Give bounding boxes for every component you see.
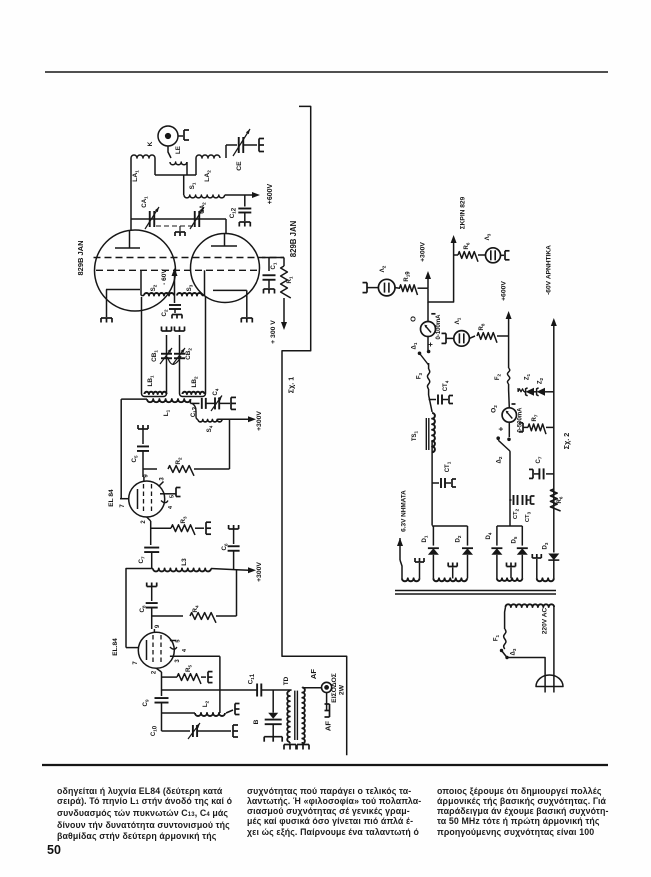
wire O2 to switch D2 [508,422,510,437]
ground below C1 [264,288,275,290]
resistor R5 [162,676,178,678]
svg-text:3: 3 [160,477,166,481]
svg-text:D5: D5 [512,536,519,543]
bridge bus D1 D2 [432,525,467,527]
diode D3 [553,546,555,553]
svg-text:C8: C8 [139,605,147,612]
pin 3 lead 2 [170,655,220,657]
svg-text:ΕΙΣΟΔΟΣ: ΕΙΣΟΔΟΣ [331,673,338,703]
svg-text:O: O [409,316,418,322]
cathode bar left [106,289,140,291]
svg-text:LB1: LB1 [147,375,155,387]
text column 3 [437,786,609,837]
wire pin3 rail down [219,656,221,690]
svg-text:CB2: CB2 [185,348,193,360]
svg-text:R7: R7 [532,414,539,421]
connector right of K [178,135,183,137]
svg-text:TS1: TS1 [412,430,419,441]
capacitor below B [265,719,282,721]
capacitor C8 [151,587,153,602]
ground center tap D1 D2 [452,568,454,579]
AF input jack [322,682,332,692]
wire LE to junction [186,162,188,175]
svg-text:CE: CE [236,161,243,171]
svg-text:F3: F3 [417,372,424,379]
EL84-1 grid dashed internals [143,484,145,514]
arrow +600V (psu) [508,319,510,336]
pin 2 lead [147,517,151,521]
wire C9 to L2 [162,712,196,714]
arrow -60V (psu) [551,318,557,326]
wire +300V to R4 rail [236,570,238,616]
transformer TD left coil [289,690,291,691]
wire cathode row [162,689,220,691]
svg-text:C10: C10 [151,725,159,736]
EL84-2 grid dashed internals [152,635,154,665]
text column 2 [247,786,412,837]
inductor L1 [121,398,147,400]
wire LA2 right leg [225,145,227,158]
inductor S3 [177,293,202,296]
ground right of R5 [207,672,209,683]
wire LB2 right rail [205,297,207,390]
wire screen left rail [140,270,142,295]
wire D2 down to bridge [509,451,511,526]
winding D4 D5 [497,578,522,581]
svg-text:Δ3: Δ3 [511,648,518,655]
svg-text:2: 2 [152,670,158,674]
anode bar left [115,247,140,249]
ground below C12 [239,221,250,223]
transformer TS1 core [425,418,427,450]
meter O 0-100mA [427,302,429,322]
svg-text:2: 2 [141,520,147,524]
inductor L3 [152,568,153,570]
arrow +300V (L3) [237,569,250,572]
svg-text:LA2: LA2 [204,170,212,182]
inductor LE [170,162,187,165]
svg-text:Z2: Z2 [538,377,545,384]
capacitor CT3 [522,495,524,505]
svg-text:Λ2: Λ2 [379,265,387,272]
svg-text:AF: AF [324,721,333,731]
wire LB1 left rail [141,297,143,390]
fuse F2 [508,336,510,368]
bottom horizontal rule [42,764,608,766]
resistor R4 [152,615,183,617]
svg-text:CA2: CA2 [199,202,207,214]
svg-text:R4: R4 [192,605,200,612]
resistor R7 [528,424,546,434]
svg-text:TD: TD [283,676,290,685]
winding D3 [537,578,554,581]
capacitor C11 [220,689,257,691]
svg-text:CT3: CT3 [525,511,532,522]
ground below AF jack [326,693,328,711]
ground above CB2 [175,330,185,332]
svg-text:D3: D3 [543,542,550,549]
capacitor CE [226,144,237,146]
svg-text:C7: C7 [536,456,543,463]
wire junction row [155,174,196,176]
ground right of R3 [205,522,207,534]
inductor S1 [183,175,185,195]
can LB1 [142,390,167,397]
wire TD to AF jack [301,686,303,689]
capacitor C6 [229,528,239,530]
resistor R8 [469,336,475,338]
svg-text:Δ1: Δ1 [412,342,419,349]
svg-text:+: + [497,426,506,431]
svg-text:7: 7 [120,504,126,508]
svg-text:C12: C12 [229,207,238,218]
bridge bus D4 D5 [497,525,522,527]
connector near pins 4 5 [175,488,177,497]
switch D3 mains [502,651,508,658]
diode D5 [521,526,523,546]
wire LA2 left leg [195,158,197,175]
resistor R6 psu lower [550,489,560,511]
ground above CB1 [162,330,172,332]
svg-text:R8: R8 [479,323,486,330]
pin 3 stub [159,482,164,487]
can LB2 [180,390,206,397]
variable capacitor C10 [192,725,194,737]
transformer core lines [395,590,556,592]
tube 829B envelope left [95,230,176,311]
arrow +600V (top) [252,192,260,198]
ground right of L2 [226,710,233,713]
fuse F3 [428,363,430,369]
transformer TD core [294,691,296,740]
page number 50 [47,843,61,857]
svg-text:C9: C9 [142,699,150,706]
ground right of C10 [232,725,234,737]
connector R7 row [522,423,524,432]
capacitor CT2 [509,499,511,501]
diode D4 [496,526,498,546]
svg-text:Z1: Z1 [525,373,532,380]
diode D1 [432,526,434,546]
svg-text:R19: R19 [404,271,412,282]
zener Z1 [524,391,526,393]
gang link CB curve [168,356,182,364]
primary left lead [504,607,507,629]
lamp L2 [378,279,395,296]
capacitor C1 [268,258,270,272]
primary right lead [553,607,555,676]
coil LB2 [183,392,205,394]
svg-text:4: 4 [168,505,174,509]
tube grid dashed line [94,257,285,259]
variable capacitor CB2 [174,353,185,355]
svg-text:D2: D2 [456,535,463,542]
svg-text:7: 7 [133,661,139,665]
pin 5 4 leads 2 [170,640,177,642]
svg-text:R6: R6 [557,496,564,503]
svg-text:S4: S4 [206,425,214,432]
arrow -60V [172,268,178,276]
svg-text:220V AC: 220V AC [542,608,549,635]
svg-text:829B JAN: 829B JAN [76,240,85,275]
inductor S2 [141,295,144,297]
inductor LA1 [131,155,155,158]
wire meter to switch D1 [427,337,429,351]
ground center tap D4 D5 [510,568,512,579]
svg-text:R3: R3 [180,516,188,523]
ground at CE [258,139,260,152]
ground above C8 [147,586,157,588]
wire TS1 down [431,441,433,526]
capacitor C5 [142,429,144,444]
svg-text:R1: R1 [286,276,294,283]
svg-text:C6: C6 [221,543,229,550]
switch D2 [498,440,510,451]
ground D3 winding [532,557,541,559]
top horizontal rule [45,71,608,73]
ground above C5 [138,428,148,430]
svg-text:Σχ. 2: Σχ. 2 [562,433,571,449]
wire -60V tap [174,276,176,296]
gang link dashed [156,225,196,227]
wire LA1 left leg [130,158,132,219]
inductor S4 [192,403,198,419]
variable capacitor CA1 [149,211,151,227]
svg-text:F2: F2 [495,373,502,380]
wire LA1 right leg [154,158,156,175]
resistor R6 [454,254,458,256]
arrow +300V (R1) [281,322,287,330]
svg-text:- 60V: - 60V [161,269,168,285]
svg-text:LB2: LB2 [191,376,199,388]
inductor L2 [195,713,225,716]
coil LB1 [145,392,167,394]
tube EL84 first [129,481,165,517]
ground below C2 [172,314,182,316]
wire grid line solid tail [262,257,284,259]
resistor R3 [151,527,171,529]
svg-text:LA1: LA1 [132,170,140,182]
arrow +300V (S4) [248,416,256,422]
svg-text:D1: D1 [422,535,429,542]
pin 7 lead [120,498,129,500]
wire screen right rail [204,270,206,295]
wire switch to plug [507,658,545,676]
capacitor C2 [174,296,176,304]
svg-text:S2: S2 [150,284,158,291]
capacitor C7 psu [546,473,554,475]
svg-text:O2: O2 [491,405,499,413]
zener Z2 [534,391,537,393]
svg-text:Σχ. 1: Σχ. 1 [287,377,296,393]
svg-text:R6: R6 [464,242,471,249]
tube EL84 second [138,632,174,668]
svg-text:S3: S3 [186,284,194,291]
wire S4 to +300V [218,418,250,420]
svg-text:K: K [147,141,154,146]
pin 2 lead 2 [156,668,161,672]
svg-text:2W: 2W [339,684,346,695]
wire node to screen rail [428,260,454,302]
ground TD left [289,742,291,744]
capacitor C7 [144,547,159,549]
svg-text:+600V: +600V [501,281,508,301]
resistor R19 [395,287,400,290]
svg-text:CB1: CB1 [151,350,159,362]
svg-text:CT4: CT4 [443,380,450,391]
ground on gang link [175,231,185,233]
resistor R1 [283,258,285,267]
winding 6.3V [402,578,419,581]
svg-text:CT1: CT1 [445,461,452,472]
svg-text:AF: AF [309,669,318,679]
svg-text:C11: C11 [248,673,257,684]
variable capacitor CB1 [161,353,172,355]
capacitor CT4 [429,399,436,401]
svg-text:EL 84: EL 84 [108,489,115,507]
wire S1 to +600V [225,194,252,196]
cathode bar right [213,289,247,291]
svg-text:+300V: +300V [256,562,263,582]
switch D1 [420,353,429,365]
inductor LA2 [196,155,220,158]
svg-text:L1: L1 [163,409,171,416]
wire -60V line [553,326,555,546]
ground TD right [301,742,303,744]
svg-text:+600V: +600V [267,183,274,204]
svg-text:+: + [426,342,435,347]
svg-text:C7: C7 [138,556,146,563]
svg-text:9: 9 [155,624,161,628]
svg-text:5: 5 [170,495,176,498]
svg-text:C1: C1 [271,262,278,269]
frame line Sx1 [282,106,347,755]
ground left cathode [101,317,112,319]
svg-text:0-100mA: 0-100mA [436,314,442,340]
wire L3 to stage2 grid [126,569,152,648]
connector left of lamp L2 [366,283,368,293]
wire K to LE [168,146,171,158]
transformer TD right coil [302,688,305,744]
svg-text:+300V: +300V [420,242,427,262]
svg-text:LE: LE [175,146,182,154]
zener sawtooth stub [518,389,524,392]
resistor R2 [143,468,157,470]
svg-text:R2: R2 [175,457,183,464]
capacitor C10 row [162,730,191,732]
svg-text:Λ1: Λ1 [454,317,462,324]
svg-text:C2: C2 [161,309,169,316]
svg-text:F1: F1 [494,634,501,641]
svg-text:C13: C13 [191,406,199,417]
winding 220V primary [506,604,555,607]
svg-text:5: 5 [176,639,182,642]
pin 5 4 leads [160,493,172,495]
lamp L3 [486,248,501,263]
anode bar right [211,245,237,247]
ground 6.3V winding [415,561,424,563]
wire +300V rail to R2 [229,419,231,469]
svg-text:L2: L2 [202,700,210,707]
capacitor C13 [190,402,199,404]
lamp K [158,126,178,146]
capacitor C4 [206,402,215,404]
svg-text:829B JAN: 829B JAN [289,220,298,257]
lamp L1 [454,331,470,347]
diode B [272,690,274,713]
fuse F1 [504,629,506,649]
text column 1 [57,786,225,841]
meter O2 0-500mA [508,390,511,408]
mains plug [536,675,563,687]
connector left of lamp L1 [445,333,447,343]
pin 7 lead 2 [126,647,139,649]
svg-text:C4: C4 [213,388,220,395]
ground right of C4 [219,402,230,404]
variable capacitor CA2 [194,211,196,227]
wire L1 left drop [120,399,122,499]
arrow screen 829 [453,243,455,260]
capacitor C12 [244,195,246,207]
connector right of lamp L3 [501,254,505,256]
tube 829B envelope right [191,234,260,303]
tube screen dashed line [96,269,258,271]
svg-text:4: 4 [182,648,188,652]
svg-text:-60V ΑΡΝΗΤΙΚΑ: -60V ΑΡΝΗΤΙΚΑ [546,245,553,295]
svg-text:ΣΚΡΙΝ 829: ΣΚΡΙΝ 829 [460,196,467,229]
svg-text:Δ2: Δ2 [496,456,503,463]
svg-text:6.3V ΝΗΜΑΤΑ: 6.3V ΝΗΜΑΤΑ [401,490,408,532]
svg-text:+ 300 V: + 300 V [270,320,277,344]
svg-text:R5: R5 [185,665,193,672]
svg-text:CA1: CA1 [141,196,149,208]
capacitor CT1 [432,482,439,484]
svg-text:Λ3: Λ3 [484,233,492,240]
svg-text:L3: L3 [181,558,188,566]
arrow +300V (psu) [427,279,429,289]
wire anode tuning row [131,218,226,220]
svg-text:CT2: CT2 [513,508,520,519]
ground right cathode [241,317,252,319]
svg-text:D4: D4 [486,532,493,539]
arrow 6.3V heaters [397,538,403,546]
transformer TS1 coil [429,395,433,412]
svg-text:C5: C5 [131,455,139,462]
capacitor C9 [161,690,163,696]
svg-text:3: 3 [175,659,181,663]
svg-text:B: B [253,719,260,724]
svg-text:+300V: +300V [256,411,263,431]
svg-text:S1: S1 [189,182,197,189]
svg-text:EL.84: EL.84 [112,638,119,656]
ground below B cap [264,736,282,738]
winding D1 D2 [433,578,467,581]
diode D2 [467,526,469,546]
